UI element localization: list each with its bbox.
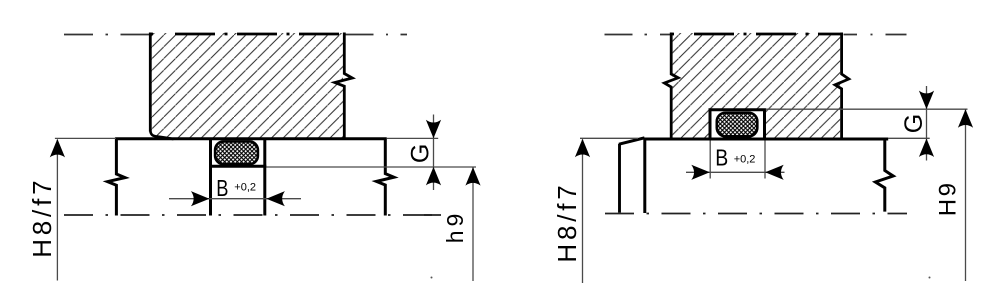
hatched housing block (left figure) — [140, 25, 355, 145]
svg-text:H9: H9 — [935, 181, 962, 217]
hatched piston block (right figure) — [660, 25, 850, 145]
centerline bottom-right — [605, 213, 907, 215]
rod surface line (right figure) — [645, 138, 889, 141]
groove left wall — [209, 138, 212, 216]
centerline bottom-left trailing dash — [424, 214, 441, 216]
rod left edge with break zigzag — [108, 138, 125, 216]
centerline top-right (thin, right of block) — [844, 34, 907, 36]
seal ring (right figure, cross-hatched) — [717, 113, 758, 137]
rod end face — [618, 144, 621, 213]
housing bore chamfer (bottom-left of block) — [150, 131, 173, 140]
svg-text:B: B — [216, 175, 228, 201]
stray dot left — [431, 277, 433, 279]
housing right edge with break zigzag — [335, 33, 353, 138]
groove right wall — [263, 138, 266, 216]
rod right edge with break zigzag (right figure) — [875, 138, 893, 212]
piston right edge with break zigzag — [835, 33, 849, 139]
svg-text:h9: h9 — [442, 210, 468, 244]
dimension B +0,2 (left figure) — [169, 198, 301, 200]
centerline top-left (thin, left of block) — [64, 34, 151, 36]
dimension H8/f7 (right figure) — [580, 137, 638, 139]
rod chamfer edge vertical — [643, 138, 646, 213]
rod surface line (left figure) — [115, 137, 387, 140]
dimension h9 (left figure) — [472, 167, 474, 281]
svg-text:+0,2: +0,2 — [234, 182, 256, 194]
dimension B +0,2 (right figure) — [709, 141, 711, 179]
housing left edge — [149, 33, 152, 132]
svg-text:G: G — [900, 114, 928, 133]
groove bottom — [209, 165, 266, 168]
dimension H9 (right figure) — [965, 109, 967, 281]
svg-text:B: B — [715, 144, 728, 170]
rod end chamfer slant — [619, 138, 645, 144]
centerline top-left (thick, across block) — [150, 33, 345, 36]
svg-text:G: G — [407, 144, 435, 163]
dimension G (left figure) — [387, 137, 438, 139]
svg-text:H8/f7: H8/f7 — [27, 177, 57, 258]
seal ring (left figure, cross-hatched) — [215, 141, 258, 164]
rod right edge with break zigzag — [376, 138, 394, 216]
svg-text:+0,2: +0,2 — [734, 154, 756, 166]
svg-text:H8/f7: H8/f7 — [552, 181, 582, 262]
centerline top-left (thin, right of block) — [345, 34, 408, 36]
centerline top-right (thin, left of block) — [605, 34, 672, 36]
centerline bottom-left — [64, 214, 441, 216]
dimension H8/f7 (left figure) — [55, 137, 116, 139]
dimension G (right figure) — [766, 108, 968, 110]
centerline top-right (thick, across block) — [671, 33, 842, 36]
groove outline (right figure) — [710, 110, 765, 139]
stray dot right — [929, 277, 931, 279]
piston left edge with break zigzag — [664, 33, 678, 139]
